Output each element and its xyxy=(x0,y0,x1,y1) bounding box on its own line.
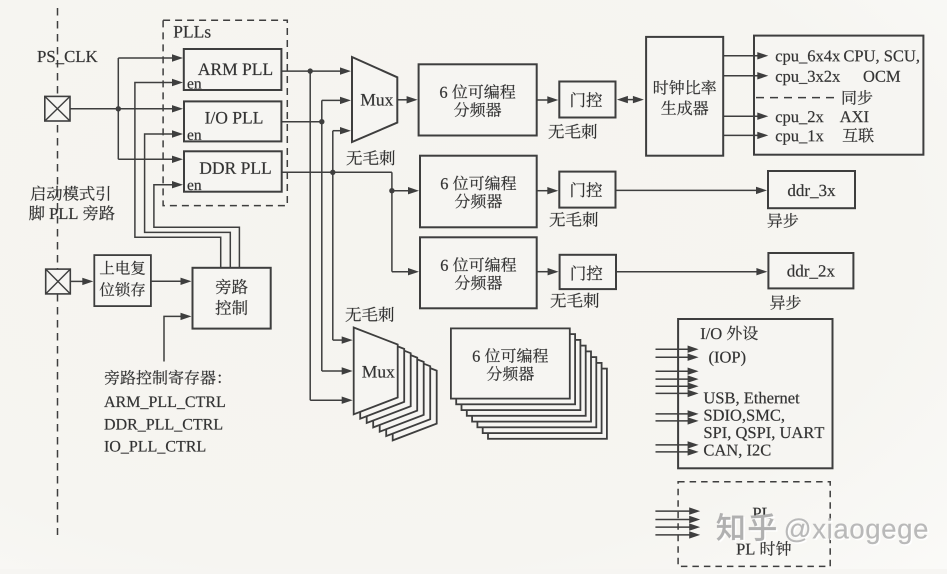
gate1 box xyxy=(559,82,615,118)
PS boundary dashed line xyxy=(57,8,59,535)
PLLs dashed group box xyxy=(163,20,287,205)
wire DDR branch to Mux xyxy=(333,130,342,132)
wire latch to bypass control xyxy=(151,280,183,282)
I/O PLL box xyxy=(184,101,281,141)
wire ARM PLL en xyxy=(135,83,221,269)
wire to DDR PLL input xyxy=(118,158,174,160)
label DDR_PLL_CTRL xyxy=(104,419,222,432)
label IO_PLL_CTRL xyxy=(105,441,206,454)
label boot mode line2 xyxy=(29,205,44,220)
wire I/O branch to Mux xyxy=(322,99,342,101)
label en DDR xyxy=(188,183,202,190)
label sync xyxy=(843,90,873,105)
label glitch-free gate3 xyxy=(551,293,599,308)
divider2 box xyxy=(420,156,537,228)
divider3 box xyxy=(420,237,537,308)
label divider2 line1 xyxy=(441,178,448,189)
bypass control box xyxy=(193,268,271,329)
label gate1 xyxy=(571,92,602,107)
wire clock to PL y=527.1 xyxy=(655,526,691,528)
label divider1 line2 xyxy=(454,102,501,117)
wire Mux out to divider1 xyxy=(397,99,408,101)
power-on reset latch box xyxy=(94,255,151,306)
PS_CLK pad (crossed box) xyxy=(45,96,70,121)
ARM PLL box xyxy=(184,49,282,90)
wire to I/O PLL input xyxy=(118,108,174,110)
wire clock to IOP y=371.2 xyxy=(656,370,690,372)
label divider3 line2 xyxy=(455,275,502,290)
label CPU SCU xyxy=(844,50,919,63)
gate3 box xyxy=(560,255,616,289)
wire gate3 to ddr_2x xyxy=(616,271,758,273)
label ARM PLL xyxy=(198,63,272,75)
wire to divider2 xyxy=(392,190,410,192)
label divider stack line2 xyxy=(487,366,534,381)
divider1 box (6-bit programmable) xyxy=(419,64,537,135)
wire PS_CLK vertical bus xyxy=(117,58,119,159)
label async ddr_3x xyxy=(767,213,798,228)
label ddr_3x xyxy=(788,184,835,198)
label divider stack line1 xyxy=(473,351,480,362)
wire divider1 to gate1 xyxy=(537,99,550,101)
label glitch-free Mux2 xyxy=(346,307,394,322)
label POR latch line1 xyxy=(100,261,145,275)
wire CRG to cpu row y=116.2 xyxy=(723,115,759,117)
label I/O peripherals xyxy=(701,328,722,339)
wire to divider3 xyxy=(392,271,410,273)
wire DDR PLL en xyxy=(154,185,240,268)
label divider1 line1 xyxy=(440,87,447,98)
reset pad (crossed box) xyxy=(46,269,71,294)
label bypass line1 xyxy=(216,279,248,294)
label async ddr_2x xyxy=(770,295,801,310)
label SPI QSPI UART xyxy=(705,427,825,441)
gate2 box xyxy=(559,172,615,208)
label PL clock xyxy=(737,544,755,555)
wire I/O branch to Mux2 xyxy=(322,370,344,372)
clock ratio generator box xyxy=(646,37,723,156)
label cpu_6x4x xyxy=(776,50,840,64)
label interconnect xyxy=(843,128,874,143)
label CAN I2C xyxy=(704,445,770,458)
wire clock to IOP y=393.4 xyxy=(656,392,690,394)
wire clock to IOP y=386.2 xyxy=(656,385,690,387)
label DDR PLL xyxy=(200,162,271,173)
label glitch-free gate2 xyxy=(550,212,598,227)
Mux 1 trapezoid xyxy=(352,57,397,142)
wire DDR feed vertical xyxy=(391,172,393,271)
label cpu_1x xyxy=(776,130,824,144)
wire clock to IOP y=444.9 xyxy=(656,444,690,446)
label bypass registers xyxy=(105,370,221,385)
wire I/O PLL out xyxy=(281,121,321,123)
label ddr_2x xyxy=(787,265,834,279)
label POR latch line2 xyxy=(100,282,145,296)
wire ARM PLL out to Mux xyxy=(281,70,342,72)
label SDIO SMC xyxy=(705,410,784,423)
PL clock dashed box xyxy=(678,482,830,567)
wire divider3 to gate3 xyxy=(537,271,550,273)
wire CRG to cpu row y=135.4 xyxy=(723,134,759,136)
label ARM_PLL_CTRL xyxy=(104,396,225,409)
wire ARM branch to Mux2 xyxy=(310,399,344,401)
label PS_CLK xyxy=(37,51,97,64)
I/O peripherals box xyxy=(678,319,832,468)
label I/O PLL xyxy=(205,112,262,124)
DDR PLL box xyxy=(184,151,282,191)
wire DDR PLL out xyxy=(282,171,392,173)
node ARM PLL out branch xyxy=(308,68,313,73)
wire I/O branch vertical xyxy=(321,100,323,371)
label cpu_2x xyxy=(776,111,824,125)
node I/O PLL out branch xyxy=(319,119,324,124)
label gate3 xyxy=(572,265,603,280)
wire clock to IOP y=379.1 xyxy=(656,378,690,380)
wire DDR branch to Mux2 xyxy=(333,339,344,341)
watermark zhihu xyxy=(718,515,777,543)
label Mux1 xyxy=(361,94,393,106)
ddr_2x box xyxy=(768,253,853,288)
wire gate1 to CRG double arrow xyxy=(626,99,635,101)
label bypass line2 xyxy=(216,300,248,315)
label OCM xyxy=(864,71,900,82)
wire ARM branch down xyxy=(309,71,311,400)
wire clock to PL y=511.1 xyxy=(655,510,691,512)
label glitch-free Mux1 xyxy=(347,150,395,165)
wire clock to PL y=534.9 xyxy=(655,534,691,536)
wire clock to PL y=519.5 xyxy=(655,519,691,521)
label PLLs xyxy=(174,26,211,38)
wire divider2 to gate2 xyxy=(537,190,550,192)
wire clock to IOP y=413.9 xyxy=(656,413,690,415)
wire gate2 to ddr_3x xyxy=(616,189,759,191)
wire reset pad to latch xyxy=(70,280,84,282)
label divider2 line2 xyxy=(455,194,502,209)
label CRG line1 xyxy=(654,80,716,95)
wire registers to bypass control xyxy=(164,316,183,361)
label PL xyxy=(753,508,771,519)
node junction PS_CLK xyxy=(116,106,121,111)
label glitch-free gate1 xyxy=(549,124,597,139)
label gate2 xyxy=(571,182,602,197)
wire DDR branch vertical xyxy=(332,131,334,340)
label USB Ethernet xyxy=(704,392,800,406)
node divider2 feed xyxy=(389,188,394,193)
wire CRG to cpu row y=75.8 xyxy=(723,75,759,77)
label CRG line2 xyxy=(661,101,708,116)
wire CRG to cpu row y=55.8 xyxy=(723,55,759,57)
wire PS_CLK to junction xyxy=(70,108,118,110)
Mux 2 stacked trapezoids xyxy=(393,354,437,441)
ddr_3x box xyxy=(768,171,855,208)
stacked divider boxes (6-bit programmable) xyxy=(488,369,607,439)
wire clock to IOP y=349.2 xyxy=(656,348,690,350)
CPU clock domain box xyxy=(754,36,923,155)
label Mux2 xyxy=(362,366,394,378)
wire I/O PLL en xyxy=(145,134,231,268)
label en I/O xyxy=(188,132,202,139)
label divider3 line1 xyxy=(441,260,448,271)
wire to ARM PLL input xyxy=(118,57,174,59)
label en ARM xyxy=(188,81,202,88)
wire clock to IOP y=420.9 xyxy=(656,420,690,422)
wire clock to IOP y=357.2 xyxy=(656,356,690,358)
wire clock to IOP y=451.9 xyxy=(656,451,690,453)
dashed sync separator in CPU box xyxy=(756,97,840,99)
label boot mode line1 xyxy=(31,186,110,201)
label cpu_3x2x xyxy=(776,71,840,85)
label AXI xyxy=(840,111,869,122)
node DDR PLL out branch xyxy=(330,170,335,175)
label IOP xyxy=(709,351,745,366)
